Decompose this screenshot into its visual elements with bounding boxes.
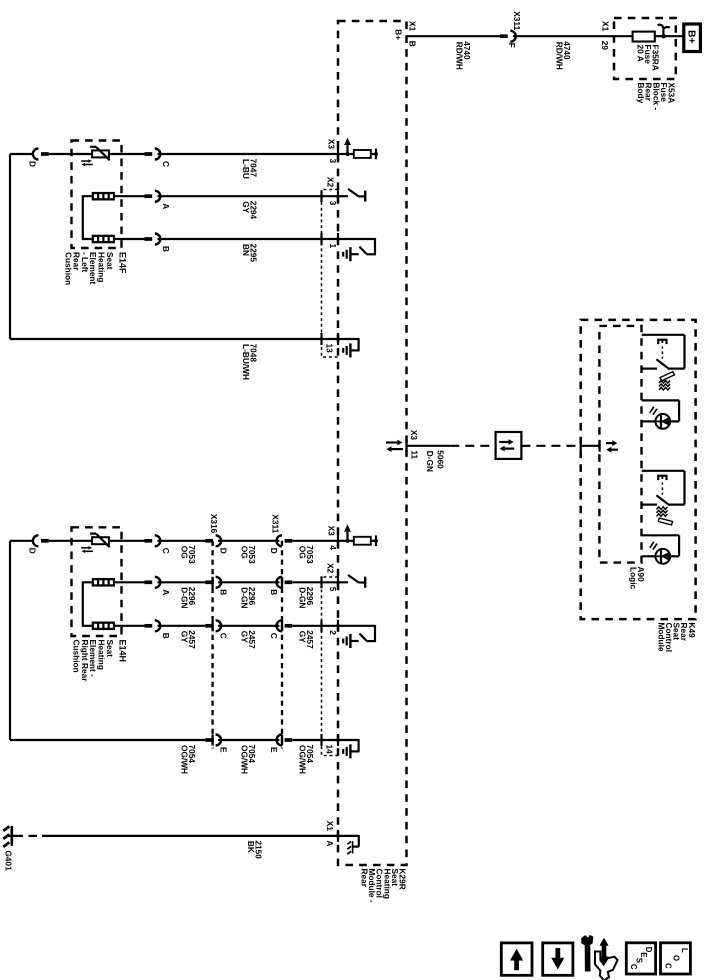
fuse holder clip symbol [658,25,670,37]
label wire 7054 OG/WH seg2 [239,745,257,775]
svg-text:D-GN: D-GN [239,587,249,608]
connector C of E14H [145,535,161,546]
svg-text:D-GN: D-GN [425,451,435,472]
heater element 1 of E14H [92,578,115,587]
svg-text:E: E [219,747,229,753]
svg-text:C: C [664,963,673,969]
svg-text:A: A [161,589,171,595]
indicator lamp 1 in K49 [642,400,679,428]
label wire 7054 OG/WH seg1 [180,745,198,775]
wire 7047 L-BU to K29R X3-3 [158,153,339,155]
label pin X1 A [325,821,335,847]
connector C of E14F [145,149,161,160]
label X311 (column) [271,514,281,533]
label wire 2294 GY [241,201,259,220]
svg-text:OG/WH: OG/WH [180,745,190,774]
label wire 2150 BK [246,840,264,859]
label wire 2457 GY seg1 [180,630,198,649]
svg-text:1: 1 [328,244,338,249]
svg-text:B+: B+ [394,29,404,40]
svg-text:E14H: E14H [117,640,127,663]
label pin X2 3 [326,177,339,206]
svg-text:X1: X1 [325,821,335,832]
label X316 [209,514,219,534]
svg-text:Body: Body [636,83,646,104]
svg-text:5: 5 [328,587,338,592]
inline connector X311 terminal F on B+ wire [500,31,516,42]
label wire 4740 RD/WH (right segment) [555,41,573,70]
serial data arrows in K49 A90 [606,440,618,452]
svg-text:O: O [672,955,681,961]
svg-text:X311: X311 [271,514,281,533]
pin 2 driver-to-ground symbol [322,620,376,648]
label pin 1 [328,244,338,249]
svg-text:GY: GY [239,631,249,643]
svg-text:F: F [507,43,517,48]
label wire 2457 GY seg2 [239,630,257,649]
wire joining heater elements [83,196,92,239]
svg-text:D: D [28,548,38,554]
connector X311 terminal B [277,577,293,588]
svg-text:D: D [28,161,38,167]
wire 2294 GY to K29R X2-3 [158,195,339,197]
svg-text:X2: X2 [326,563,336,574]
svg-text:D-GN: D-GN [298,587,308,608]
svg-text:X2: X2 [326,177,336,188]
pin X1-A internal ground [338,830,359,854]
switch S2 (right seat heat) in K49 [642,471,685,505]
label wire 2457 GY seg3 [298,630,316,649]
indicator lamp 2 in K49 [642,535,679,563]
heater element 2 of E14F [92,235,115,244]
svg-text:X3: X3 [327,139,337,150]
label pin X3 11 [409,430,419,460]
wire into K49 to A90 pin [581,440,600,452]
svg-text:C: C [161,161,171,167]
wire 2296 D-GN segment 3 [292,581,338,583]
label pin 14 [325,745,335,755]
label terminal C at X311 [269,633,279,639]
svg-text:GY: GY [298,631,308,643]
svg-text:L: L [680,948,689,953]
label terminal C at X316 [219,633,229,639]
pin 14 ground symbol [322,734,360,758]
svg-text:X3: X3 [409,430,419,441]
connector B of E14F [145,234,161,245]
wire 2296 D-GN segment 2 [218,581,279,583]
icon box DESC [626,943,655,974]
label K49 Rear Seat Control Module [656,623,696,653]
wire thermostat to connector C [109,153,145,155]
element E14F dashed box [72,141,122,249]
svg-text:14: 14 [325,745,335,755]
thermostat in E14H [81,534,110,554]
svg-text:L-BU/WH: L-BU/WH [241,344,251,380]
label X53A Fuse Block - Rear Body [636,83,676,111]
wire 7053 OG segment 2 [218,540,279,542]
svg-text:20 A: 20 A [635,45,645,62]
svg-text:Logic: Logic [628,567,638,590]
wire 7054 OG/WH segment 3 [292,739,338,741]
switch S1 (left seat heat) in K49 [642,335,685,369]
svg-text:G401: G401 [4,850,14,871]
svg-text:Cushion: Cushion [72,640,82,673]
connector X316 terminal D [205,535,221,546]
pin X3-11 serial data arrows in K29R [386,440,403,452]
svg-text:X316: X316 [209,514,219,534]
wire 2457 GY segment 3 [292,625,338,627]
label wire 2296 D-GN seg2 [239,587,257,609]
icon box up-arrow [501,943,532,975]
svg-text:E: E [639,952,648,957]
wire 7054 OG/WH segment 2 [218,739,279,741]
label wire 7053 OG seg2 [239,545,257,564]
svg-text:GY: GY [180,631,190,643]
svg-text:C: C [161,548,171,554]
wire D to E14F thermostat [49,153,92,155]
wire 2457 GY segment 1 [158,625,206,627]
seat heat icon (left) [659,372,675,390]
svg-text:RD/WH: RD/WH [555,42,565,70]
label terminal D (E14H) [28,548,38,554]
wire coil2 to connector B [115,238,145,240]
wire 5060 D-GN from K29R X3-11 [407,440,451,452]
icon box LOC [661,943,691,974]
label wire 2296 D-GN seg1 [180,587,198,609]
svg-text:OG: OG [239,546,249,559]
label wire 7053 OG seg1 [180,545,198,564]
label F35RA Fuse 20 A [635,45,660,71]
svg-text:D-GN: D-GN [180,587,190,608]
seat heat icon (right) [657,507,673,525]
label B+ inside module [394,29,404,40]
svg-text:OG/WH: OG/WH [239,745,249,774]
label terminal B (E14H) [161,633,171,639]
battery B+ box [684,24,701,52]
label wire 7047 L-BU [241,159,259,179]
label terminal D (E14F) [28,161,38,167]
connector X311 terminal E [277,735,293,746]
svg-text:S: S [635,958,644,963]
svg-text:Module: Module [656,623,666,652]
svg-text:X3: X3 [327,526,337,537]
svg-text:OG/WH: OG/WH [298,745,308,774]
ground G401 [3,826,14,847]
connector D of E14F [33,149,49,160]
wire D to E14H thermostat [49,540,92,542]
thermostat in E14F [81,147,110,167]
svg-text:13: 13 [325,344,335,354]
svg-text:BK: BK [246,841,256,853]
icon box down-arrow [543,943,573,975]
label pin X3 3 [327,139,339,164]
label wire 2295 BN [241,244,259,263]
connector X311 terminal D [277,535,293,546]
svg-text:E: E [269,747,279,753]
wire 2457 GY segment 2 [218,625,279,627]
wire loop from pin13 wire up left side (7048 path) [10,154,338,339]
svg-text:BN: BN [241,244,251,256]
svg-text:2: 2 [328,630,338,635]
svg-text:Cushion: Cushion [63,252,73,285]
svg-text:C: C [269,633,279,639]
svg-text:B: B [219,589,229,595]
pin X3-3 power output symbol [338,138,378,161]
label terminal F [507,43,517,48]
svg-text:B: B [161,633,171,639]
label X311 [512,11,522,30]
svg-text:X311: X311 [512,11,522,30]
label pin 2 [328,630,338,635]
connector X311 line (dashed) [281,541,283,749]
label pin X2 5 [326,563,339,592]
wire 2295 BN to K29R pin 1 [158,238,339,240]
pin X2-5 switch symbol [322,575,366,588]
pin 1 driver-to-ground symbol [322,233,376,261]
label terminal E at X311 [269,747,279,753]
label A90 Logic [628,567,646,590]
connector X316 terminal E [205,735,221,746]
logic block A90 (dashed box) [599,326,641,563]
connector X2 region box (dash-dot) [322,190,339,358]
svg-text:X1: X1 [601,21,611,32]
label wire 7053 OG seg3 [298,545,316,564]
pin 13 ground symbol [322,333,360,357]
svg-text:D: D [269,548,279,554]
label terminal A (E14F) [161,203,171,209]
label terminal C (E14H) [161,548,171,554]
connector X316 terminal C [205,620,221,631]
label pin 13 [325,344,335,354]
wire joining heater elements (E14H) [83,582,92,626]
label terminal A (E14H) [161,589,171,595]
svg-text:B: B [161,246,171,252]
svg-text:Rear: Rear [360,869,370,888]
label K29R Seat Heating Control Module - Rear [360,869,408,903]
svg-text:C: C [629,964,638,970]
svg-text:3: 3 [328,201,338,206]
label terminal B (E14F) [161,246,171,252]
pin X3-4 power output symbol [338,524,378,547]
dashed wire from G401 [15,835,43,837]
svg-text:L-BU: L-BU [241,159,251,179]
wire 7053 OG segment 3 [292,540,338,542]
module K29R Seat Heating Control Module - Rear (dashed box) [338,21,407,865]
svg-text:D: D [219,548,229,554]
wire 4740 RD/WH from X311 to fuse block [513,35,633,37]
svg-text:C: C [219,633,229,639]
svg-text:29: 29 [600,41,610,51]
wire coil1 to connector A (E14H) [115,581,145,583]
connector X311 terminal C [277,620,293,631]
label terminal D at X316 [219,548,229,554]
svg-text:5060: 5060 [436,450,446,469]
label E14H Seat Heating Element - Right Rear Cushion [72,640,128,683]
label pin X3 4 [327,526,339,551]
pin X2-3 switch symbol [322,189,366,202]
label wire 4740 RD/WH (left segment) [455,41,473,70]
svg-text:4: 4 [328,545,338,550]
fuse block X53A (dashed box) [614,18,676,79]
svg-text:A: A [161,203,171,209]
label terminal E at X316 [219,747,229,753]
label terminal B at X311 [269,589,279,595]
junction ticks where wires cross connector lines [213,577,282,746]
label G401 [4,850,14,871]
connector A of E14F [145,191,161,202]
svg-text:OG: OG [180,546,190,559]
connector D of E14H [33,535,49,546]
label wire 7048 L-BU/WH [241,344,259,380]
svg-text:B: B [269,589,279,595]
icon wrench and arrows [582,935,618,980]
dashed data wire to splice pack [450,445,495,447]
dashed data wire to K49 [521,445,580,447]
connector X316 terminal B [205,577,221,588]
label E14F Seat Heating Element - Left Rear Cushion [63,252,127,285]
wire coil2 to connector B (E14H) [115,625,145,627]
splice pack / serial data link box [496,432,522,459]
heater element 2 of E14H [92,622,115,631]
label terminal D at X311 [269,548,279,554]
wire 2296 D-GN segment 1 [158,581,206,583]
label wire 2296 D-GN seg3 [298,587,316,609]
svg-text:X1: X1 [408,21,418,32]
wire 7053 OG segment 1 [158,540,206,542]
connector A of E14H [145,577,161,588]
svg-text:A: A [325,840,335,846]
module K49 Rear Seat Control Module (dashed box) [581,320,696,619]
svg-text:RD/WH: RD/WH [455,42,465,70]
wire thermostat to connector C (E14H) [109,540,145,542]
label terminal C (E14F) [161,161,171,167]
wire 4740 RD/WH from K29R X1-B to X311 [407,35,501,37]
label pin X1 29 at fuse block [600,21,611,50]
svg-text:11: 11 [410,450,420,459]
connector X316 line (dashed) [211,541,213,749]
label wire 7054 OG/WH seg3 [298,745,316,775]
svg-text:OG: OG [298,546,308,559]
connector B of E14H [145,620,161,631]
wire 2150 BK to K29R X1-A [42,835,338,837]
element E14H dashed box [72,527,122,636]
connector X2 region box lower (dash-dot) [322,577,339,756]
label pin X1 B at module [408,21,418,47]
wire from fuse to B+ terminal with junction [655,34,683,38]
svg-text:GY: GY [241,201,251,213]
fuse F35RA 20A element [633,32,655,42]
wire loop from pin14 wire up left side (7054 path) [10,541,205,740]
label wire 5060 D-GN [425,450,445,472]
heater element 1 of E14F [92,192,115,201]
wire coil1 to connector A [115,195,145,197]
svg-text:E14F: E14F [117,252,127,274]
svg-text:3: 3 [328,159,338,164]
svg-text:B: B [408,41,418,47]
svg-text:B+: B+ [686,30,698,44]
label terminal B at X316 [219,589,229,595]
arrows in serial data link box [499,439,514,451]
